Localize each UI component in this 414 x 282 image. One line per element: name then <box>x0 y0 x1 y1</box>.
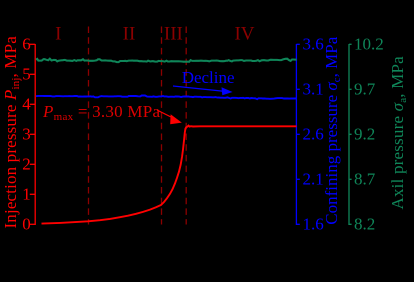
svg-text:III: III <box>164 23 183 44</box>
svg-text:1.6: 1.6 <box>303 215 324 234</box>
red injection pressure curve <box>42 126 297 224</box>
dashed region boundary line 3 <box>185 27 187 225</box>
blue confining pressure curve <box>36 96 297 100</box>
svg-text:5: 5 <box>22 65 31 84</box>
Pmax annotation arrow line <box>157 110 172 118</box>
svg-text:3.1: 3.1 <box>303 80 324 99</box>
blue axis ticks <box>296 44 299 224</box>
left axis ticks <box>30 44 35 224</box>
svg-text:9.2: 9.2 <box>354 125 375 144</box>
Pmax annotation arrowhead <box>170 114 182 124</box>
svg-text:Injection pressure Pinj, MPa: Injection pressure Pinj, MPa <box>1 36 22 229</box>
svg-text:II: II <box>123 23 136 44</box>
svg-text:6: 6 <box>22 35 31 54</box>
svg-text:Confining pressure σc, MPa: Confining pressure σc, MPa <box>322 36 343 224</box>
svg-text:2.6: 2.6 <box>303 125 324 144</box>
dashed region boundary line 1 <box>88 27 90 225</box>
svg-text:2.1: 2.1 <box>303 170 324 189</box>
svg-text:Axil pressure σa, MPa: Axil pressure σa, MPa <box>388 56 409 210</box>
svg-text:0: 0 <box>22 215 31 234</box>
svg-text:8.2: 8.2 <box>354 215 375 234</box>
svg-text:2: 2 <box>22 155 31 174</box>
svg-text:IV: IV <box>234 23 254 44</box>
left injection-pressure axis spine <box>34 44 36 225</box>
left axis tick labels <box>22 35 31 234</box>
svg-text:8.7: 8.7 <box>354 170 376 189</box>
svg-text:Decline: Decline <box>182 68 235 87</box>
svg-text:4: 4 <box>22 95 31 114</box>
green axial pressure curve <box>36 59 297 62</box>
Decline annotation arrow line <box>173 86 226 92</box>
green axis ticks <box>349 44 352 224</box>
green axis tick labels <box>354 35 384 234</box>
dashed region boundary line 2 <box>161 27 163 225</box>
svg-text:3.6: 3.6 <box>303 35 324 54</box>
svg-text:3: 3 <box>22 125 31 144</box>
svg-text:1: 1 <box>22 185 31 204</box>
Decline annotation arrowhead <box>222 87 233 95</box>
svg-text:9.7: 9.7 <box>354 80 376 99</box>
svg-text:I: I <box>55 23 61 44</box>
blue axis tick labels <box>303 35 324 234</box>
green axial-pressure axis spine <box>348 44 350 225</box>
blue confining-pressure axis spine <box>295 44 297 225</box>
svg-text:10.2: 10.2 <box>354 35 384 54</box>
